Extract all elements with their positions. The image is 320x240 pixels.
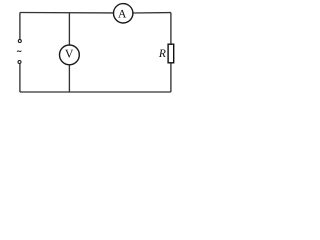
- voltmeter V circle: [60, 45, 80, 65]
- wire middle branch upper (node to voltmeter): [68, 13, 70, 45]
- source terminal lower: [18, 61, 21, 64]
- wire left lower (terminal down to bottom-left corner): [19, 64, 21, 92]
- ammeter A label: [118, 10, 126, 18]
- wire middle branch lower (voltmeter to bottom): [68, 65, 70, 92]
- resistor R box: [168, 44, 174, 63]
- source terminal upper: [18, 40, 21, 43]
- wire top-left to ammeter: [20, 12, 114, 14]
- wire ammeter to top-right corner: [133, 12, 171, 14]
- ammeter A circle: [114, 4, 133, 23]
- wire right upper (top-right corner to resistor): [170, 13, 172, 45]
- wire right lower (resistor to bottom-right corner): [170, 63, 172, 92]
- wire bottom: [20, 91, 171, 93]
- ac tilde symbol: [17, 51, 21, 52]
- voltmeter V label: [65, 50, 73, 58]
- resistor R label: [159, 49, 166, 57]
- wire left upper (top-left corner down to terminal): [19, 13, 21, 40]
